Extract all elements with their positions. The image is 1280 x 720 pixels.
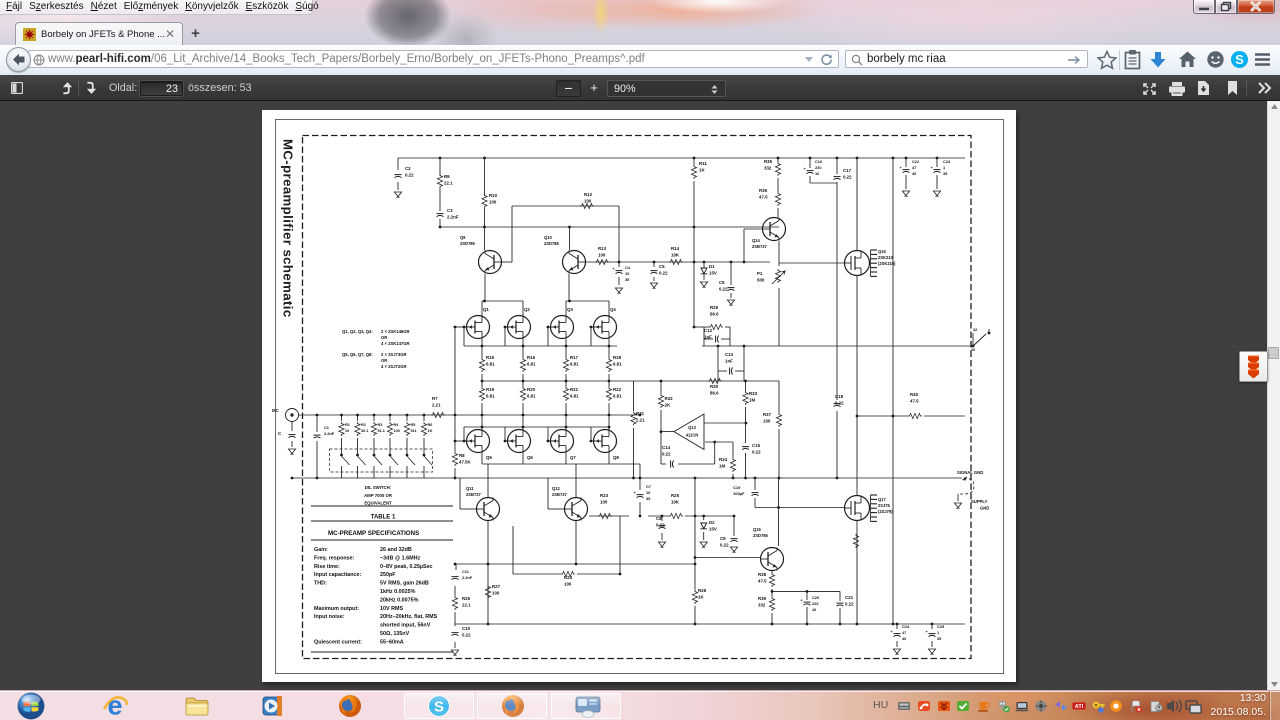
svg-text:86.6: 86.6 xyxy=(710,390,719,395)
svg-text:10K: 10K xyxy=(671,499,680,504)
svg-text:Input noise:: Input noise: xyxy=(314,614,345,620)
svg-text:0.22: 0.22 xyxy=(835,400,844,405)
svg-text:Q5: Q5 xyxy=(486,455,492,460)
svg-text:R28: R28 xyxy=(698,588,707,593)
svg-text:2SD786: 2SD786 xyxy=(460,241,476,246)
svg-text:332: 332 xyxy=(758,602,766,607)
svg-text:C2: C2 xyxy=(405,166,411,171)
svg-text:+: + xyxy=(801,599,804,603)
svg-text:R39: R39 xyxy=(758,596,767,601)
svg-text:100: 100 xyxy=(598,252,606,257)
svg-text:220: 220 xyxy=(815,165,822,170)
svg-text:EQUIVALENT: EQUIVALENT xyxy=(364,500,392,505)
svg-text:0.22: 0.22 xyxy=(462,632,471,637)
svg-text:R11: R11 xyxy=(699,161,707,166)
svg-text:100: 100 xyxy=(600,499,608,504)
svg-text:R18: R18 xyxy=(613,355,622,360)
svg-text:C11: C11 xyxy=(462,569,470,574)
svg-text:OR: OR xyxy=(381,335,387,340)
svg-text:0.22: 0.22 xyxy=(656,522,665,527)
svg-text:SUPPLY: SUPPLY xyxy=(971,499,988,504)
svg-text:Freq. response:: Freq. response: xyxy=(314,555,355,561)
svg-text:C15: C15 xyxy=(752,443,761,448)
svg-text:6.81: 6.81 xyxy=(570,361,579,366)
svg-text:R37: R37 xyxy=(763,412,772,417)
svg-text:5V RMS, gain 26dB: 5V RMS, gain 26dB xyxy=(380,581,429,587)
svg-text:C5: C5 xyxy=(659,264,665,269)
svg-text:R3: R3 xyxy=(378,423,383,427)
svg-text:R15: R15 xyxy=(486,355,495,360)
svg-text:2.2nF: 2.2nF xyxy=(447,214,459,219)
svg-text:6.81: 6.81 xyxy=(613,361,622,366)
svg-text:R19: R19 xyxy=(486,387,495,392)
svg-text:C: C xyxy=(278,431,282,436)
svg-text:35: 35 xyxy=(646,496,651,501)
svg-text:4 × 2SJ72GR: 4 × 2SJ72GR xyxy=(381,364,407,369)
svg-text:Q3: Q3 xyxy=(567,307,573,312)
svg-text:R6: R6 xyxy=(428,423,433,427)
svg-text:26 and 32dB: 26 and 32dB xyxy=(380,547,412,553)
svg-text:R21: R21 xyxy=(570,387,579,392)
svg-text:Q11: Q11 xyxy=(466,486,474,491)
svg-text:(2SK216): (2SK216) xyxy=(878,261,896,266)
svg-text:100: 100 xyxy=(492,590,500,595)
svg-text:R4: R4 xyxy=(394,423,400,427)
svg-text:Q10: Q10 xyxy=(544,235,552,240)
svg-text:C19: C19 xyxy=(733,485,741,490)
svg-text:OR: OR xyxy=(381,358,387,363)
svg-text:1nF: 1nF xyxy=(704,334,712,339)
svg-text:AMP 7000 OR: AMP 7000 OR xyxy=(364,493,393,498)
svg-text:C13: C13 xyxy=(725,352,734,357)
svg-text:47: 47 xyxy=(902,630,906,635)
svg-text:C17: C17 xyxy=(843,168,852,173)
svg-text:2SJ76: 2SJ76 xyxy=(878,503,891,508)
svg-text:16: 16 xyxy=(815,171,820,176)
svg-text:R35: R35 xyxy=(764,159,773,164)
svg-text:Q14: Q14 xyxy=(752,238,760,243)
svg-text:MC-preamplifier schematic: MC-preamplifier schematic xyxy=(281,139,296,318)
svg-text:2 × 2SK146GR: 2 × 2SK146GR xyxy=(381,329,410,334)
svg-text:220: 220 xyxy=(812,601,819,606)
svg-text:R30: R30 xyxy=(710,384,719,389)
svg-text:Q1: Q1 xyxy=(483,307,489,312)
svg-text:15V: 15V xyxy=(709,270,717,275)
svg-text:10K: 10K xyxy=(671,252,680,257)
svg-text:R8: R8 xyxy=(459,453,465,458)
svg-text:6.81: 6.81 xyxy=(486,393,495,398)
svg-text:R38: R38 xyxy=(758,572,767,577)
svg-text:100: 100 xyxy=(564,581,572,586)
svg-text:R23: R23 xyxy=(600,493,609,498)
svg-text:SIGNAL GND: SIGNAL GND xyxy=(957,470,983,475)
svg-text:C14: C14 xyxy=(662,445,671,450)
svg-text:C6: C6 xyxy=(719,280,725,285)
svg-text:C9: C9 xyxy=(720,536,726,541)
svg-text:R9: R9 xyxy=(444,174,450,179)
svg-text:R10: R10 xyxy=(489,193,498,198)
svg-text:+: + xyxy=(804,167,807,171)
svg-text:+: + xyxy=(613,267,616,271)
svg-text:Q2: Q2 xyxy=(524,307,530,312)
svg-text:Input capacitance:: Input capacitance: xyxy=(314,572,362,578)
svg-text:C4: C4 xyxy=(625,265,631,270)
svg-text:+: + xyxy=(891,630,894,634)
svg-text:100: 100 xyxy=(584,198,592,203)
svg-text:R34: R34 xyxy=(719,457,728,462)
svg-text:Rise time:: Rise time: xyxy=(314,564,340,570)
svg-text:2K: 2K xyxy=(665,402,671,407)
svg-text:C18: C18 xyxy=(835,394,844,399)
svg-text:30.1: 30.1 xyxy=(361,429,368,433)
svg-text:R16: R16 xyxy=(527,355,536,360)
svg-text:R40: R40 xyxy=(910,392,919,397)
svg-text:C1: C1 xyxy=(324,425,330,430)
svg-text:0.22: 0.22 xyxy=(719,286,728,291)
svg-text:Q16: Q16 xyxy=(878,249,886,254)
svg-text:Q7: Q7 xyxy=(570,455,576,460)
svg-text:2SB737: 2SB737 xyxy=(466,492,482,497)
svg-text:(2SJ79): (2SJ79) xyxy=(878,509,893,514)
svg-text:22.1: 22.1 xyxy=(462,602,471,607)
svg-text:2SB737: 2SB737 xyxy=(552,492,568,497)
svg-text:1K: 1K xyxy=(698,594,704,599)
svg-text:R24: R24 xyxy=(564,575,573,580)
svg-text:20kHz 0.0075%: 20kHz 0.0075% xyxy=(380,597,419,603)
svg-text:6.81: 6.81 xyxy=(570,393,579,398)
svg-text:MC-PREAMP SPECIFICATIONS: MC-PREAMP SPECIFICATIONS xyxy=(328,530,419,537)
svg-text:R12: R12 xyxy=(584,192,593,197)
svg-text:10: 10 xyxy=(625,271,629,276)
svg-text:Q17: Q17 xyxy=(878,497,886,502)
svg-text:shorted input, 56nV: shorted input, 56nV xyxy=(380,623,431,629)
svg-text:1nF: 1nF xyxy=(725,358,733,363)
svg-text:C22: C22 xyxy=(912,159,920,164)
svg-text:Gain:: Gain: xyxy=(314,547,328,553)
svg-text:250pF: 250pF xyxy=(380,572,396,578)
svg-text:R7: R7 xyxy=(432,396,438,401)
svg-text:R5: R5 xyxy=(411,423,416,427)
svg-text:0.22: 0.22 xyxy=(752,449,761,454)
svg-text:511: 511 xyxy=(411,429,417,433)
svg-text:1kHz 0.0025%: 1kHz 0.0025% xyxy=(380,589,416,595)
svg-text:C8: C8 xyxy=(656,516,662,521)
svg-text:2SD786: 2SD786 xyxy=(753,533,769,538)
svg-text:0.22: 0.22 xyxy=(720,542,729,547)
svg-text:2.21: 2.21 xyxy=(636,417,645,422)
svg-text:2 × 2SJ73GR: 2 × 2SJ73GR xyxy=(381,352,407,357)
svg-text:Quiescent current:: Quiescent current: xyxy=(314,639,362,645)
svg-text:1: 1 xyxy=(937,630,940,635)
svg-text:R1: R1 xyxy=(345,423,350,427)
svg-text:2SK213: 2SK213 xyxy=(878,255,894,260)
svg-text:Maximum output:: Maximum output: xyxy=(314,606,359,612)
svg-text:R17: R17 xyxy=(570,355,579,360)
svg-text:R22: R22 xyxy=(613,387,622,392)
svg-text:16: 16 xyxy=(812,607,817,612)
svg-text:500: 500 xyxy=(757,277,765,282)
svg-text:R13: R13 xyxy=(598,246,607,251)
svg-text:e: e xyxy=(107,691,122,720)
svg-text:0.22: 0.22 xyxy=(405,172,414,177)
svg-text:R2: R2 xyxy=(361,423,366,427)
svg-text:R27: R27 xyxy=(492,584,501,589)
svg-text:2.2nF: 2.2nF xyxy=(324,431,335,436)
svg-text:35: 35 xyxy=(937,636,942,641)
svg-text:P1: P1 xyxy=(757,271,763,276)
svg-text:55–60mA: 55–60mA xyxy=(380,639,404,645)
svg-text:GND: GND xyxy=(980,506,989,511)
svg-text:Q13: Q13 xyxy=(688,425,696,430)
svg-text:R29: R29 xyxy=(710,305,719,310)
svg-text:0.22: 0.22 xyxy=(662,451,671,456)
svg-text:C20: C20 xyxy=(812,595,819,600)
svg-text:22.1: 22.1 xyxy=(444,180,453,185)
svg-text:32: 32 xyxy=(973,328,977,332)
svg-text:0.22: 0.22 xyxy=(843,174,852,179)
svg-text:47.5: 47.5 xyxy=(910,398,919,403)
svg-text:1M: 1M xyxy=(749,397,755,402)
svg-text:R14: R14 xyxy=(671,246,680,251)
svg-text:2.21: 2.21 xyxy=(432,402,441,407)
svg-text:6.81: 6.81 xyxy=(486,361,495,366)
svg-text:332: 332 xyxy=(764,165,772,170)
svg-text:100µF: 100µF xyxy=(733,491,745,496)
svg-text:R32: R32 xyxy=(665,396,674,401)
svg-text:C23: C23 xyxy=(943,159,951,164)
svg-text:C12: C12 xyxy=(704,328,713,333)
svg-text:R31: R31 xyxy=(636,411,645,416)
svg-text:1K: 1K xyxy=(699,167,705,172)
svg-text:Q15: Q15 xyxy=(753,527,761,532)
svg-text:THD:: THD: xyxy=(314,581,327,587)
svg-text:2.2nF: 2.2nF xyxy=(462,575,473,580)
svg-text:D1: D1 xyxy=(709,264,715,269)
svg-text:51.1: 51.1 xyxy=(378,429,385,433)
svg-text:35: 35 xyxy=(625,277,630,282)
svg-text:50Ω, 135nV: 50Ω, 135nV xyxy=(380,631,410,637)
svg-text:20Hz–20kHz, flat, RMS: 20Hz–20kHz, flat, RMS xyxy=(380,614,438,620)
svg-text:40: 40 xyxy=(902,636,906,641)
svg-text:C25: C25 xyxy=(937,624,945,629)
svg-text:2SD786: 2SD786 xyxy=(544,241,560,246)
svg-text:TABLE 1: TABLE 1 xyxy=(371,515,396,521)
svg-text:411CN: 411CN xyxy=(686,433,699,438)
svg-text:C7: C7 xyxy=(646,484,651,489)
svg-text:C24: C24 xyxy=(902,624,910,629)
svg-text:10: 10 xyxy=(345,429,349,433)
svg-text:47.5: 47.5 xyxy=(758,578,767,583)
svg-text:Q1, Q2, Q3, Q4:: Q1, Q2, Q3, Q4: xyxy=(342,329,373,334)
svg-text:+: + xyxy=(900,166,903,170)
svg-text:40: 40 xyxy=(912,171,916,176)
svg-text:Q9: Q9 xyxy=(460,235,466,240)
svg-text:47: 47 xyxy=(912,165,916,170)
svg-text:10: 10 xyxy=(646,490,650,495)
svg-text:47.5K: 47.5K xyxy=(459,459,472,464)
svg-text:1M: 1M xyxy=(719,463,725,468)
svg-text:Q5, Q6, Q7, Q8:: Q5, Q6, Q7, Q8: xyxy=(342,352,373,357)
svg-text:R25: R25 xyxy=(671,493,680,498)
svg-text:0.22: 0.22 xyxy=(845,601,854,606)
svg-text:R33: R33 xyxy=(749,391,758,396)
svg-text:100: 100 xyxy=(489,199,497,204)
svg-text:47.5: 47.5 xyxy=(759,194,768,199)
svg-text:2SB737: 2SB737 xyxy=(752,244,768,249)
svg-text:10V RMS: 10V RMS xyxy=(380,606,403,612)
svg-text:1K: 1K xyxy=(428,429,433,433)
svg-text:86.6: 86.6 xyxy=(710,311,719,316)
svg-text:R36: R36 xyxy=(759,188,768,193)
svg-text:+: + xyxy=(931,166,934,170)
svg-text:15V: 15V xyxy=(709,526,717,531)
svg-text:Q12: Q12 xyxy=(552,486,560,491)
svg-text:C16: C16 xyxy=(815,159,823,164)
svg-text:D2: D2 xyxy=(709,520,715,525)
svg-text:Q8: Q8 xyxy=(613,455,619,460)
svg-text:4 × 2SK147GR: 4 × 2SK147GR xyxy=(381,341,410,346)
svg-text:+: + xyxy=(634,491,637,495)
svg-text:1: 1 xyxy=(943,165,946,170)
svg-text:−3dB @ 1.6MHz: −3dB @ 1.6MHz xyxy=(380,555,420,561)
svg-text:DIL SWITCH:: DIL SWITCH: xyxy=(365,485,392,490)
svg-text:6.81: 6.81 xyxy=(527,393,536,398)
svg-text:100: 100 xyxy=(763,418,771,423)
svg-text:C3: C3 xyxy=(447,208,453,213)
svg-text:C21: C21 xyxy=(845,595,854,600)
svg-text:6.81: 6.81 xyxy=(613,393,622,398)
svg-text:0.22: 0.22 xyxy=(659,270,668,275)
svg-text:S: S xyxy=(1235,52,1244,67)
svg-text:+: + xyxy=(926,630,929,634)
svg-text:Q6: Q6 xyxy=(527,455,533,460)
svg-text:ATI: ATI xyxy=(1075,704,1084,710)
svg-text:0–8V peak, 0.25µSec: 0–8V peak, 0.25µSec xyxy=(380,564,433,570)
svg-text:R26: R26 xyxy=(462,596,471,601)
svg-text:Q4: Q4 xyxy=(610,307,616,312)
svg-text:100: 100 xyxy=(394,429,400,433)
svg-text:R20: R20 xyxy=(527,387,536,392)
svg-text:35: 35 xyxy=(943,171,948,176)
svg-text:C10: C10 xyxy=(462,626,471,631)
svg-text:6.81: 6.81 xyxy=(527,361,536,366)
